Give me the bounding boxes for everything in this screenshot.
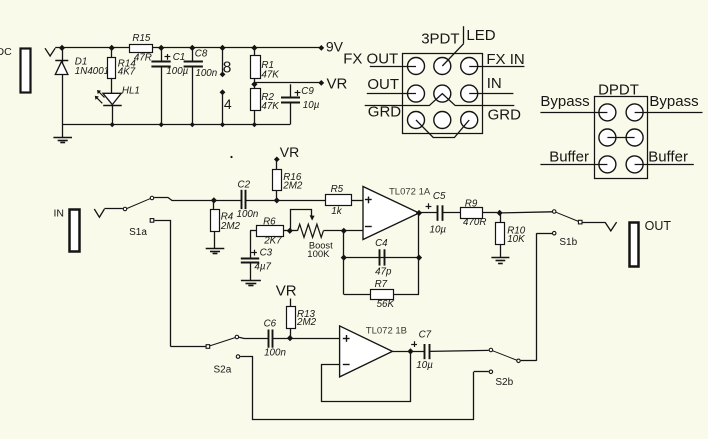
- svg-text:56K: 56K: [377, 299, 395, 310]
- svg-text:S2a: S2a: [214, 364, 232, 375]
- svg-text:1N4001: 1N4001: [75, 66, 109, 77]
- svg-text:OUT: OUT: [645, 219, 672, 233]
- svg-text:C6: C6: [264, 318, 277, 329]
- svg-text:Buffer: Buffer: [648, 149, 688, 166]
- svg-text:2M2: 2M2: [282, 181, 303, 192]
- svg-text:C7: C7: [419, 330, 432, 341]
- svg-text:Bypass: Bypass: [540, 93, 589, 110]
- svg-text:FX OUT: FX OUT: [343, 50, 398, 67]
- svg-text:C2: C2: [238, 179, 251, 190]
- svg-text:47p: 47p: [375, 266, 392, 277]
- svg-text:100K: 100K: [307, 249, 330, 260]
- svg-text:TL072 1B: TL072 1B: [366, 325, 407, 336]
- svg-text:Buffer: Buffer: [549, 149, 589, 166]
- svg-text:10µ: 10µ: [303, 100, 320, 111]
- svg-text:100µ: 100µ: [166, 66, 188, 77]
- svg-text:DPDT: DPDT: [598, 82, 639, 99]
- svg-text:4K7: 4K7: [118, 67, 136, 78]
- svg-text:HL1: HL1: [122, 85, 140, 96]
- svg-text:C9: C9: [301, 86, 314, 97]
- svg-text:47K: 47K: [261, 70, 279, 81]
- svg-text:GRD: GRD: [368, 104, 402, 121]
- svg-text:10µ: 10µ: [416, 360, 433, 371]
- svg-text:IN: IN: [487, 75, 502, 92]
- svg-text:9V: 9V: [326, 39, 344, 55]
- svg-text:VR: VR: [276, 282, 297, 299]
- svg-text:470R: 470R: [463, 217, 486, 228]
- svg-text:4: 4: [224, 96, 232, 112]
- svg-text:TL072 1A: TL072 1A: [389, 186, 431, 197]
- svg-text:10µ: 10µ: [430, 225, 447, 236]
- svg-text:C3: C3: [260, 248, 273, 259]
- svg-text:OUT: OUT: [367, 76, 399, 93]
- svg-text:47K: 47K: [261, 101, 279, 112]
- svg-text:S1a: S1a: [129, 227, 147, 238]
- svg-text:R7: R7: [375, 279, 388, 290]
- svg-text:R15: R15: [132, 33, 151, 44]
- svg-text:C5: C5: [433, 191, 446, 202]
- svg-text:2M2: 2M2: [296, 317, 317, 328]
- svg-text:100n: 100n: [237, 209, 259, 220]
- svg-text:3PDT: 3PDT: [421, 30, 459, 47]
- svg-text:C1: C1: [173, 52, 186, 63]
- svg-text:100n: 100n: [264, 348, 286, 359]
- svg-text:2M2: 2M2: [220, 221, 241, 232]
- svg-text:47R: 47R: [134, 52, 152, 63]
- svg-text:2K7: 2K7: [263, 235, 282, 246]
- svg-text:S2b: S2b: [495, 377, 513, 388]
- svg-text:R5: R5: [331, 184, 344, 195]
- svg-text:100n: 100n: [195, 68, 217, 79]
- svg-text:VR: VR: [327, 76, 348, 93]
- svg-text:VR: VR: [280, 144, 299, 160]
- svg-text:FX IN: FX IN: [486, 51, 524, 68]
- svg-text:1k: 1k: [331, 206, 342, 217]
- svg-text:S1b: S1b: [559, 237, 577, 248]
- svg-text:10K: 10K: [507, 234, 525, 245]
- svg-text:GRD: GRD: [488, 107, 521, 124]
- svg-text:4µ7: 4µ7: [254, 262, 271, 273]
- svg-text:LED: LED: [466, 27, 495, 44]
- svg-text:Bypass: Bypass: [649, 93, 698, 110]
- svg-text:IN: IN: [54, 207, 65, 219]
- svg-text:R6: R6: [263, 217, 276, 228]
- svg-text:R9: R9: [465, 199, 478, 210]
- svg-text:C4: C4: [375, 238, 388, 249]
- svg-text:DC: DC: [0, 46, 12, 58]
- svg-text:8: 8: [223, 60, 232, 77]
- svg-text:C8: C8: [195, 49, 208, 60]
